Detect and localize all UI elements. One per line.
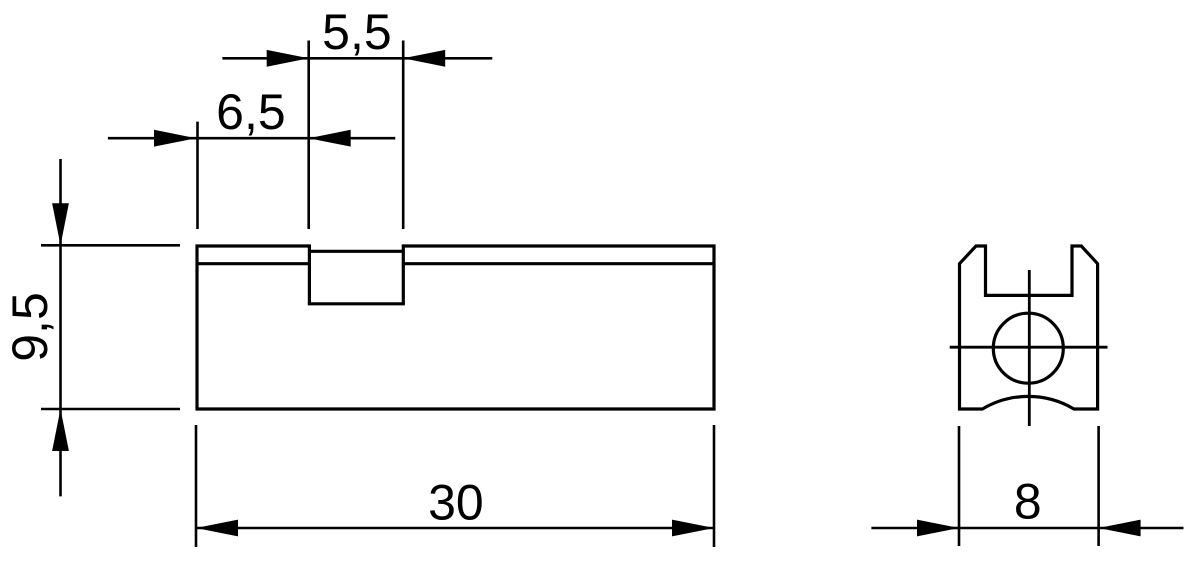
end view: vertical centerline [1028, 270, 1031, 426]
svg-text:9,5: 9,5 [2, 292, 58, 362]
side view: top chamfer edge line (right segment) [403, 262, 714, 265]
dimension 8: right arrowhead [1099, 520, 1141, 537]
dimension 9,5: bottom extension line [41, 408, 180, 411]
dimension 8: right extension line [1097, 426, 1100, 546]
dimension 9,5: top arrowhead [52, 203, 69, 245]
side view: slot right wall [402, 244, 405, 303]
dimension 30: left arrowhead [196, 520, 238, 537]
dimension 8: dimension line [871, 527, 1183, 530]
side view: top chamfer edge line (left segment) [197, 262, 309, 265]
end view: horizontal centerline [950, 346, 1108, 349]
svg-text:8: 8 [1014, 474, 1042, 530]
svg-text:6,5: 6,5 [216, 84, 286, 140]
dimension 5,5: dimension line [222, 57, 492, 60]
dimension 5,5: right arrowhead [403, 50, 445, 67]
side view: outer outline (top edge interrupted by slot) [197, 246, 714, 409]
dimension 8: left extension line [958, 426, 961, 546]
dimension 9,5: dimension line [59, 159, 62, 496]
dimension 8: left arrowhead [917, 520, 959, 537]
dimension 30: dimension line [196, 527, 714, 530]
side view: slot left wall [308, 244, 311, 303]
dimension 30: right extension line [713, 425, 716, 547]
dimension 5,5: right extension line [402, 41, 405, 230]
dimension 6,5: left arrowhead [154, 130, 196, 147]
dimension 9,5: top extension line [41, 244, 180, 247]
dimension 5,5: left extension line [307, 41, 310, 230]
svg-text:30: 30 [428, 475, 484, 531]
end view: outline with chamfered prongs and bottom relief arc [960, 246, 1098, 409]
end view: hole circle [993, 313, 1063, 383]
dimension 30: left extension line [195, 425, 198, 547]
dimension 6,5: left extension line [196, 122, 199, 229]
svg-text:5,5: 5,5 [322, 4, 392, 60]
dimension 6,5: dimension line [108, 137, 395, 140]
dimension 6,5: right arrowhead [309, 130, 351, 147]
side view: slot inner top edge [309, 250, 403, 253]
dimension 5,5: left arrowhead [267, 50, 309, 67]
dimension 30: right arrowhead [672, 520, 714, 537]
side view: slot bottom edge [308, 302, 405, 305]
dimension 9,5: bottom arrowhead [52, 409, 69, 451]
